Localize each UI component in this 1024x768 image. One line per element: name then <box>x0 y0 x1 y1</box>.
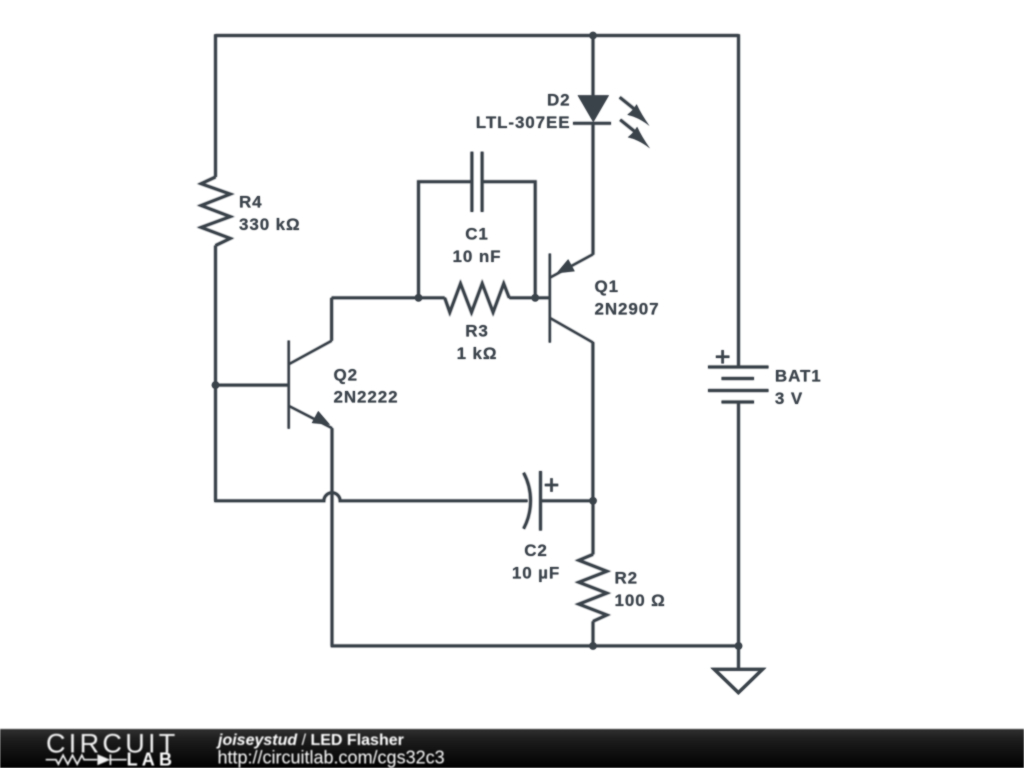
svg-text:R4: R4 <box>239 193 263 212</box>
svg-text:2N2907: 2N2907 <box>595 300 660 319</box>
svg-text:C1: C1 <box>465 225 489 244</box>
svg-text:3 V: 3 V <box>775 389 803 408</box>
svg-text:Q2: Q2 <box>334 365 358 384</box>
svg-text:2N2222: 2N2222 <box>334 388 399 407</box>
svg-text:R2: R2 <box>615 569 639 588</box>
svg-text:C2: C2 <box>524 541 548 560</box>
svg-text:330 kΩ: 330 kΩ <box>239 215 301 234</box>
svg-text:10 nF: 10 nF <box>453 247 502 266</box>
svg-text:BAT1: BAT1 <box>775 367 822 386</box>
svg-text:Q1: Q1 <box>595 277 619 296</box>
svg-text:1 kΩ: 1 kΩ <box>457 344 498 363</box>
svg-text:LTL-307EE: LTL-307EE <box>476 113 571 132</box>
svg-text:100 Ω: 100 Ω <box>615 591 666 610</box>
svg-text:R3: R3 <box>465 322 489 341</box>
svg-text:D2: D2 <box>547 91 571 110</box>
svg-text:10 µF: 10 µF <box>512 564 560 583</box>
